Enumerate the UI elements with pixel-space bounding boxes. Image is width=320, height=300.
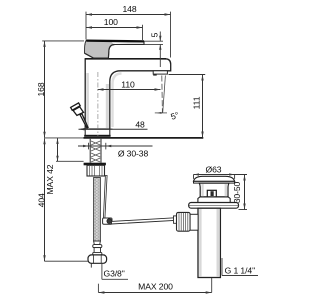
- centerline axis: [97, 72, 99, 136]
- extension line right x170.5: [170, 12, 172, 58]
- flange mid line: [189, 204, 238, 206]
- deck extension thin: [45, 137, 84, 139]
- svg-text:G 1 1/4": G 1 1/4": [225, 265, 255, 275]
- faucet body: [85, 59, 171, 129]
- dim 5 ticks: [145, 32, 164, 68]
- body top edge: [85, 58, 166, 60]
- dim 148 line: [86, 14, 171, 16]
- svg-text:MAX 42: MAX 42: [45, 164, 55, 194]
- aerator: [153, 71, 167, 74]
- rod joint: [103, 218, 112, 224]
- hose end collar: [93, 245, 102, 248]
- dim Ø63 arrows: [194, 173, 235, 175]
- spout inner curve shading: [113, 74, 122, 128]
- svg-text:5: 5: [149, 32, 159, 37]
- extension line y74.2: [169, 74, 206, 76]
- shank threads: [91, 141, 100, 162]
- drain neck: [199, 183, 229, 197]
- svg-text:148: 148: [122, 4, 136, 14]
- neck shading: [202, 184, 204, 196]
- dim Ø63 ticks: [193, 175, 195, 179]
- nut knurling: [90, 166, 103, 176]
- drain tube: [198, 208, 220, 277]
- base bottom dark bar: [84, 135, 110, 137]
- overflow slot dark: [211, 191, 214, 196]
- lever bottom-left dark edge: [85, 53, 94, 58]
- dim 100 line: [86, 27, 143, 29]
- base sides: [84, 129, 86, 135]
- dim 404 line: [44, 138, 46, 261]
- hose nut outlet stub: [90, 263, 92, 267]
- lever neck shading: [85, 41, 114, 57]
- pivot ball nut: [177, 212, 191, 231]
- ball nut knurl: [179, 213, 188, 231]
- threaded shank: [90, 139, 101, 163]
- dim 48 arrow: [79, 128, 85, 130]
- dim 111 arrows: [201, 75, 203, 138]
- dome brim: [194, 181, 235, 183]
- dim 110 arrows: [98, 88, 161, 90]
- dim Ø30-38 ticks: [89, 143, 106, 150]
- column shading left: [86, 73, 89, 128]
- tube shading left: [199, 209, 201, 277]
- rod joint screw: [107, 219, 112, 224]
- pull rod vertical: [103, 176, 107, 219]
- hose end taper: [94, 241, 101, 245]
- hose end neck: [94, 248, 100, 253]
- lever top edge: [86, 39, 144, 42]
- dim MAX200 arrows: [98, 291, 211, 293]
- mounting washer: [84, 163, 106, 166]
- pivot rod entry collar: [174, 216, 177, 223]
- countertop deck line: [84, 137, 204, 139]
- mounting nut: [87, 165, 105, 176]
- svg-text:MAX 200: MAX 200: [138, 281, 173, 291]
- dim MAX200 line: [98, 292, 211, 294]
- dim Ø30-38 arrows: [83, 145, 111, 147]
- svg-text:110: 110: [121, 79, 135, 89]
- dim 404 arrows: [43, 138, 45, 261]
- dim Ø30-38 line: [78, 145, 153, 147]
- svg-text:111: 111: [191, 96, 201, 109]
- G3/8 nut: [88, 255, 107, 263]
- svg-text:Ø63: Ø63: [206, 164, 222, 174]
- dim 168 arrows: [43, 41, 45, 138]
- tube shading right: [217, 209, 220, 277]
- pop-up knob: [71, 103, 88, 128]
- svg-text:168: 168: [36, 82, 46, 96]
- extension line top y41: [42, 40, 84, 42]
- dim Ø63 line: [194, 174, 248, 176]
- label G1 1/4 leader: [221, 258, 223, 276]
- ball joint boss: [190, 214, 198, 230]
- dim 30-50 arrows: [243, 175, 245, 210]
- svg-text:30-50: 30-50: [232, 181, 242, 203]
- aerator lip: [153, 74, 157, 76]
- dim 100 arrows: [86, 26, 143, 28]
- spray line vertical: [161, 76, 164, 113]
- drain collar: [198, 197, 230, 203]
- dim 404 bottom extension: [45, 260, 89, 262]
- dim 168 line: [44, 41, 46, 138]
- MAX42 bottom extension: [56, 160, 84, 162]
- horizontal pivot rod: [112, 218, 177, 224]
- dim 48 line: [79, 128, 148, 130]
- G3/8 nut facets: [93, 255, 95, 263]
- drain flange: [189, 203, 239, 209]
- dim 5 arrows: [159, 36, 161, 50]
- dim MAX42 arrows: [56, 138, 58, 161]
- base plate top line: [81, 128, 113, 130]
- dim 110 line: [98, 89, 161, 91]
- hose end ring: [93, 252, 102, 255]
- drain dome cap: [194, 176, 235, 181]
- overflow slot: [207, 190, 216, 197]
- svg-text:48: 48: [135, 120, 145, 130]
- dim 30-50 bottom extension: [239, 209, 248, 211]
- dim 148 arrows: [86, 13, 171, 15]
- flexible hose: [94, 178, 101, 242]
- handle lever: [85, 41, 144, 58]
- dim MAX200 ticks: [97, 284, 99, 293]
- column shading right: [106, 84, 109, 128]
- hose inner edge lines: [94, 178, 96, 241]
- extension line left x86: [85, 12, 87, 40]
- extension line x142.5: [142, 25, 144, 40]
- spray tick: [155, 112, 167, 114]
- svg-text:Ø 30-38: Ø 30-38: [118, 149, 149, 159]
- lever neck curve line: [108, 45, 114, 58]
- dim 30-50 line: [244, 175, 246, 210]
- dim 111 line: [202, 75, 204, 138]
- svg-text:100: 100: [104, 17, 118, 27]
- dim MAX42 line: [57, 138, 59, 161]
- label G3/8 leader: [101, 263, 103, 279]
- spray line 5deg: [163, 76, 166, 113]
- svg-text:G3/8": G3/8": [104, 268, 125, 278]
- spray arrow: [156, 112, 162, 114]
